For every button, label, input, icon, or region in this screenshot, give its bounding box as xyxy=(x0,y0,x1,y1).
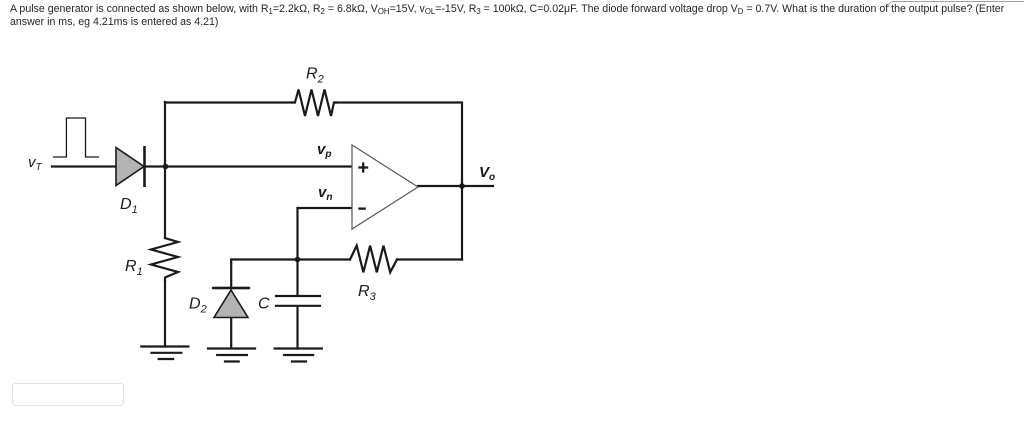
svg-text:D2: D2 xyxy=(189,296,207,316)
svg-text:R3: R3 xyxy=(358,283,377,303)
svg-text:D1: D1 xyxy=(120,196,138,216)
svg-text:R2: R2 xyxy=(306,66,324,86)
svg-text:vn: vn xyxy=(318,184,332,203)
svg-text:Vo: Vo xyxy=(479,164,495,183)
svg-text:C: C xyxy=(258,296,270,313)
svg-text:R1: R1 xyxy=(125,258,143,278)
svg-text:vp: vp xyxy=(317,141,331,160)
svg-text:vT: vT xyxy=(28,154,43,173)
